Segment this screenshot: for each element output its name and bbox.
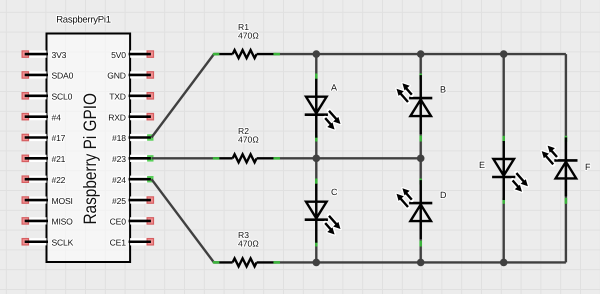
wire column LED B — [420, 54, 422, 158]
label R2 470Ω — [238, 126, 259, 145]
pin #24 (right 7) — [112, 175, 153, 185]
pin SCLK (left 10) — [22, 237, 74, 247]
label R1 470Ω — [238, 22, 259, 41]
svg-text:#24: #24 — [112, 175, 126, 185]
pin CE0 (right 9) — [110, 217, 154, 227]
svg-text:#25: #25 — [112, 196, 126, 206]
junction node (316,54) — [313, 50, 321, 58]
LED F — [542, 137, 578, 196]
pin #18 (right 5) — [112, 133, 153, 143]
pin #22 (left 7) — [22, 175, 66, 185]
wire column LED F — [565, 54, 567, 262]
svg-text:F: F — [585, 162, 591, 172]
junction node (316,262) — [313, 259, 321, 267]
pin CE1 (right 10) — [110, 237, 154, 247]
pin SCL0 (left 3) — [22, 92, 73, 102]
pin TXD (right 3) — [109, 92, 153, 102]
svg-text:C: C — [331, 187, 338, 197]
pin #25 (right 8) — [112, 196, 153, 206]
svg-text:5V0: 5V0 — [111, 50, 126, 60]
svg-text:470Ω: 470Ω — [238, 135, 259, 145]
junction node (316,158) — [313, 155, 321, 163]
svg-text:3V3: 3V3 — [52, 50, 67, 60]
pin MOSI (left 8) — [22, 196, 73, 206]
wire column LED D — [420, 158, 422, 262]
wire #18 to R1 (diagonal) — [152, 54, 214, 137]
pin RXD (right 4) — [108, 112, 153, 122]
svg-text:#22: #22 — [52, 175, 66, 185]
pin 3V3 (left 1) — [22, 50, 67, 60]
pin #4 (left 4) — [22, 112, 61, 122]
junction node (420,54) — [417, 50, 425, 58]
svg-text:470Ω: 470Ω — [238, 239, 259, 249]
pin 5V0 (right 1) — [111, 50, 153, 60]
wire column LED A — [315, 54, 317, 158]
pin #17 (left 5) — [22, 133, 66, 143]
label R3 470Ω — [238, 230, 259, 249]
pin GND (right 2) — [107, 71, 153, 81]
LED D — [397, 180, 433, 239]
svg-text:#21: #21 — [52, 154, 66, 164]
svg-text:A: A — [331, 82, 337, 92]
svg-text:CE1: CE1 — [110, 237, 127, 247]
svg-text:GND: GND — [107, 71, 126, 81]
svg-text:#17: #17 — [52, 133, 66, 143]
svg-text:RaspberryPi1: RaspberryPi1 — [56, 14, 111, 25]
junction node (420,262) — [417, 259, 425, 267]
svg-text:SCLK: SCLK — [52, 237, 74, 247]
pin #21 (left 6) — [22, 154, 66, 164]
svg-text:MISO: MISO — [52, 217, 74, 227]
svg-text:RXD: RXD — [108, 112, 126, 122]
svg-text:E: E — [479, 160, 485, 170]
svg-text:MOSI: MOSI — [52, 196, 73, 206]
svg-text:470Ω: 470Ω — [238, 30, 259, 40]
junction node (420,158) — [417, 155, 425, 163]
svg-text:B: B — [440, 85, 446, 95]
svg-text:SDA0: SDA0 — [52, 71, 74, 81]
pin MISO (left 9) — [22, 217, 73, 227]
LED E — [492, 141, 528, 200]
wire row2 (R2 to LED D column) — [276, 157, 420, 159]
wire #23 to R2 — [152, 157, 214, 159]
resistor R1 — [214, 50, 277, 58]
IC RaspberryPi1 body — [47, 34, 131, 263]
svg-text:TXD: TXD — [109, 92, 126, 102]
svg-text:D: D — [440, 190, 447, 200]
green terminal marks: LED leads — [315, 74, 567, 247]
LED A — [305, 79, 341, 138]
LED C — [305, 184, 341, 243]
svg-text:Raspberry Pi GPIO: Raspberry Pi GPIO — [80, 93, 100, 225]
svg-text:#18: #18 — [112, 133, 126, 143]
pin SDA0 (left 2) — [22, 71, 73, 81]
wire column LED E — [503, 54, 505, 262]
junction node (503,262) — [500, 259, 508, 267]
wire #24 to R3 (diagonal) — [152, 179, 214, 262]
wire column LED C — [315, 158, 317, 262]
junction node (503,54) — [500, 50, 508, 58]
LED B — [397, 75, 433, 134]
svg-text:#23: #23 — [112, 154, 126, 164]
green terminal marks: resistor terminals — [213, 53, 280, 264]
svg-text:SCL0: SCL0 — [52, 92, 73, 102]
pin #23 (right 6) — [112, 154, 153, 164]
wire row1 (R1 to LED F column) — [276, 53, 566, 55]
svg-text:#4: #4 — [52, 112, 62, 122]
resistor R2 — [214, 154, 277, 162]
wire row3 (R3 to LED F column) — [276, 261, 566, 263]
resistor R3 — [214, 258, 277, 266]
svg-text:CE0: CE0 — [110, 217, 127, 227]
